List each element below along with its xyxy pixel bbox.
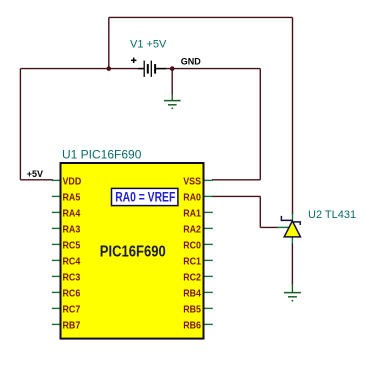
svg-text:RA2: RA2	[183, 224, 201, 236]
wire top horizontal +5V net	[109, 16, 293, 18]
svg-text:GND: GND	[181, 56, 202, 66]
pin stub RC2	[205, 275, 213, 277]
ground symbol under battery	[164, 94, 181, 105]
wire vertical from top rail down to battery + node	[108, 17, 110, 68]
pin stub VSS	[205, 179, 213, 181]
pin stub RC3	[52, 275, 60, 277]
pin stub RA0	[205, 195, 213, 197]
svg-text:V1 +5V: V1 +5V	[130, 39, 167, 51]
svg-text:RB6: RB6	[183, 320, 201, 332]
svg-text:+5V: +5V	[27, 169, 43, 179]
pin stub RB6	[205, 323, 213, 325]
node junction dot GND battery node	[170, 66, 175, 71]
svg-text:RC3: RC3	[63, 272, 81, 284]
svg-text:RC4: RC4	[63, 256, 81, 268]
svg-text:VSS: VSS	[183, 176, 201, 188]
wire RA0 horizontal	[212, 195, 260, 197]
TL431 U2 anode pin stub	[291, 237, 293, 244]
svg-text:RC1: RC1	[183, 256, 201, 268]
pin stub RA1	[205, 211, 213, 213]
wire GND net vertical down to VSS level	[259, 69, 261, 180]
svg-text:RC7: RC7	[63, 304, 81, 316]
wire GND node drop to ground symbol	[171, 69, 173, 96]
svg-text:RA1: RA1	[183, 208, 201, 220]
wire right vertical from top rail down to TL431 cathode	[292, 17, 294, 214]
svg-text:RA3: RA3	[63, 224, 81, 236]
pin stub RA2	[205, 227, 213, 229]
pin stub RB4	[205, 291, 213, 293]
svg-text:U1 PIC16F690: U1 PIC16F690	[62, 148, 142, 162]
svg-text:RC5: RC5	[63, 240, 81, 252]
TL431 U2 triangle	[284, 221, 300, 237]
wire into VDD pin	[20, 179, 53, 181]
svg-text:RA0: RA0	[183, 192, 201, 204]
IC U1 PIC16F690 body	[61, 163, 204, 339]
wire VSS horizontal	[212, 179, 260, 181]
svg-text:RA4: RA4	[63, 208, 81, 220]
pin stub RA5	[52, 195, 60, 197]
svg-text:RA0 = VREF: RA0 = VREF	[115, 189, 175, 205]
svg-text:RB5: RB5	[183, 304, 201, 316]
node junction dot +5V battery node	[107, 66, 112, 71]
svg-text:RC2: RC2	[183, 272, 201, 284]
battery V1 plus polarity sign	[131, 58, 136, 63]
pin stub RB7	[52, 323, 60, 325]
pin stub RC0	[205, 243, 213, 245]
battery V1 plates and leads	[138, 61, 166, 77]
TL431 U2 cathode bar	[281, 216, 300, 225]
pin stub RC6	[52, 291, 60, 293]
pin stub RC1	[205, 259, 213, 261]
svg-text:RA5: RA5	[63, 192, 81, 204]
note box RA0 = VREF	[112, 188, 178, 205]
svg-text:VDD: VDD	[63, 176, 82, 188]
pin stub RA4	[52, 211, 60, 213]
svg-text:U2 TL431: U2 TL431	[308, 209, 356, 221]
TL431 U2 cathode pin stub	[292, 213, 294, 220]
wire GND horizontal from battery - terminal to the right	[156, 68, 261, 70]
svg-text:RC6: RC6	[63, 288, 81, 300]
wire RA0 vertical drop	[259, 196, 261, 227]
svg-text:RC0: RC0	[183, 240, 201, 252]
svg-text:RB7: RB7	[63, 320, 81, 332]
wire left rail vertical down to VDD level	[19, 69, 21, 180]
wire battery + node to left rail	[20, 68, 143, 70]
pin stub RC4	[52, 259, 60, 261]
pin stub VDD	[52, 179, 60, 181]
wire TL431 anode down to ground	[291, 243, 293, 285]
pin stub RC7	[52, 307, 60, 309]
ground symbol under TL431	[284, 283, 301, 297]
svg-text:RB4: RB4	[183, 288, 201, 300]
pin stub RA3	[52, 227, 60, 229]
pin stub RB5	[205, 307, 213, 309]
pin stub RC5	[52, 243, 60, 245]
wire RA0 to TL431 ref input	[260, 226, 278, 228]
TL431 U2 ref pin stub	[277, 226, 289, 228]
svg-text:PIC16F690: PIC16F690	[100, 243, 166, 261]
